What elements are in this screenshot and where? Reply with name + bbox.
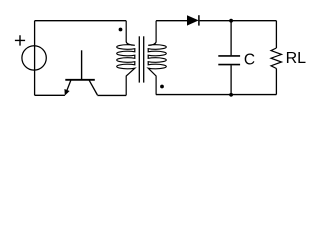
wire: diode to top-right corner <box>200 20 277 22</box>
source V1 circle <box>22 46 46 70</box>
diode D1 triangle <box>187 15 199 25</box>
wire: right edge bottom segment <box>275 69 277 95</box>
diode D1 cathode bar <box>198 15 200 25</box>
svg-text:RL: RL <box>286 50 307 67</box>
wire: capacitor upper lead <box>230 21 232 56</box>
wire: collector to primary bottom <box>97 94 126 96</box>
transformer T1 primary phase dot <box>119 28 123 32</box>
transformer T1 secondary winding <box>148 21 166 95</box>
transistor Q1 collector <box>89 80 97 95</box>
wire: left loop left side <box>34 21 36 96</box>
wire: right edge top segment <box>275 21 277 48</box>
transformer T1 core line 2 <box>143 36 145 82</box>
transistor Q1 emitter with arrow <box>66 80 71 92</box>
source V1 plus sign <box>15 35 25 45</box>
transformer T1 core line 1 <box>138 36 140 82</box>
wire: right loop bottom <box>156 94 277 96</box>
transformer T1 secondary phase dot <box>160 85 164 89</box>
capacitor C top plate <box>218 55 240 57</box>
svg-text:C: C <box>244 51 255 68</box>
node: junction dot top of capacitor branch <box>229 19 233 23</box>
wire: secondary top to diode anode <box>156 20 187 22</box>
wire: left loop bottom (to emitter arrow) <box>35 94 65 96</box>
node: junction dot bottom of capacitor branch <box>229 93 233 97</box>
resistor RL zigzag <box>271 48 282 69</box>
transistor Q1 base lead <box>81 50 83 79</box>
transistor Q1 base bar <box>65 79 95 81</box>
wire: left loop top <box>35 20 127 22</box>
transformer T1 primary winding <box>117 21 135 96</box>
capacitor C bottom plate <box>218 64 240 66</box>
wire: capacitor lower lead <box>230 65 232 95</box>
